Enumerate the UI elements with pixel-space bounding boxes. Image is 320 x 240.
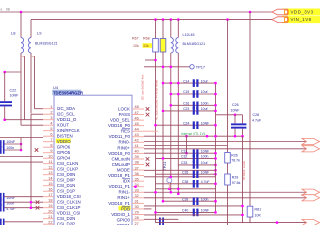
svg-text:36: 36 [135, 172, 139, 176]
svg-text:GPIO5: GPIO5 [57, 150, 71, 155]
svg-text:I2C_SCL: I2C_SCL [57, 112, 75, 117]
svg-text:CSI_D1N: CSI_D1N [57, 183, 76, 188]
svg-text:L8: L8 [11, 31, 16, 36]
svg-text:DC xxx 5xGbE 4ch: DC xxx 5xGbE 4ch [141, 74, 145, 100]
svg-text:CSI_CLKP: CSI_CLKP [57, 167, 78, 172]
svg-text:R26: R26 [231, 154, 237, 158]
svg-text:4: 4 [50, 121, 52, 125]
svg-text:44: 44 [135, 127, 139, 131]
svg-text:100n: 100n [6, 146, 14, 150]
svg-text:C33: C33 [181, 161, 187, 165]
svg-text:MODE: MODE [117, 167, 130, 172]
svg-text:10NF: 10NF [10, 94, 20, 98]
svg-text:VDD_SEL: VDD_SEL [110, 118, 131, 123]
svg-text:C39: C39 [182, 197, 188, 201]
svg-text:37: 37 [135, 166, 139, 170]
svg-text:16: 16 [48, 187, 52, 191]
svg-text:R67: R67 [132, 37, 139, 41]
svg-text:VDD11_D: VDD11_D [57, 117, 76, 122]
svg-text:2: 2 [50, 110, 52, 114]
svg-text:VDD11_F1: VDD11_F1 [109, 184, 131, 189]
svg-text:10NF: 10NF [6, 140, 16, 144]
svg-text:17: 17 [48, 193, 52, 197]
svg-text:VDD18_P0: VDD18_P0 [108, 123, 131, 128]
svg-text:48: 48 [135, 105, 139, 109]
svg-text:RIN0-: RIN0- [119, 140, 131, 145]
svg-text:U4: U4 [53, 85, 59, 90]
svg-text:100n: 100n [201, 197, 209, 201]
svg-text:4C xxxx 5xGbE 44 4chx 4kmk: 4C xxxx 5xGbE 44 4chx 4kmk [154, 79, 158, 120]
svg-text:XIN/RFCLK: XIN/RFCLK [57, 128, 80, 133]
svg-text:9: 9 [50, 149, 52, 153]
svg-text:C38: C38 [182, 180, 188, 184]
svg-text:33: 33 [135, 188, 139, 192]
svg-text:10NF: 10NF [201, 170, 209, 174]
svg-text:VIN_1V8: VIN_1V8 [291, 17, 312, 22]
svg-text:GPIO6: GPIO6 [57, 145, 71, 150]
svg-text:C23: C23 [183, 107, 189, 111]
svg-text:31: 31 [135, 200, 139, 204]
svg-text:VDDIO: VDDIO [57, 139, 71, 144]
svg-text:VDD18_P1: VDD18_P1 [108, 173, 131, 178]
svg-text:10uf: 10uf [201, 107, 208, 111]
svg-text:29: 29 [135, 211, 139, 215]
svg-text:45: 45 [135, 122, 139, 126]
svg-text:35: 35 [135, 177, 139, 181]
svg-text:CSI_D0P: CSI_D0P [57, 178, 75, 183]
svg-text:97.6k: 97.6k [232, 181, 241, 185]
svg-text:11: 11 [49, 160, 53, 164]
svg-text:CSI_D2N: CSI_D2N [57, 216, 76, 221]
svg-text:13: 13 [48, 171, 52, 175]
svg-text:PASS: PASS [119, 112, 130, 117]
svg-text:30: 30 [135, 205, 139, 209]
svg-text:BLM18SG121: BLM18SG121 [35, 42, 58, 46]
svg-text:15: 15 [48, 182, 52, 186]
svg-text:TDES954RGZR: TDES954RGZR [53, 90, 83, 95]
svg-text:TP21: TP21 [163, 162, 167, 171]
svg-text:RIN1-: RIN1- [119, 190, 131, 195]
svg-text:C24: C24 [183, 121, 189, 125]
svg-text:I2C_SDA: I2C_SDA [57, 106, 75, 111]
svg-text:12: 12 [48, 165, 52, 169]
svg-text:78.7k: 78.7k [231, 159, 240, 163]
svg-text:40: 40 [135, 150, 139, 154]
svg-text:33k: 33k [143, 44, 149, 48]
svg-text:CSI_D1P: CSI_D1P [57, 189, 75, 194]
svg-text:VDD18_F0: VDD18_F0 [108, 151, 130, 156]
svg-text:08: 08 [6, 8, 10, 12]
svg-text:10uf: 10uf [201, 90, 208, 94]
svg-text:CSI_D2P: CSI_D2P [57, 222, 75, 225]
svg-text:C28: C28 [253, 113, 260, 117]
svg-text:GPIO0: GPIO0 [117, 217, 131, 222]
svg-text:CMLoutN: CMLoutN [111, 156, 130, 161]
svg-text:C14: C14 [183, 79, 189, 83]
svg-text:C31: C31 [181, 149, 187, 153]
svg-text:R29: R29 [232, 176, 238, 180]
svg-text:CSI_D0N: CSI_D0N [57, 172, 76, 177]
svg-text:VDD18_F1: VDD18_F1 [108, 201, 130, 206]
svg-text:C32: C32 [181, 155, 187, 159]
svg-text:GPIO4: GPIO4 [57, 156, 71, 161]
svg-text:R68: R68 [143, 37, 150, 41]
svg-text:10uf: 10uf [201, 79, 208, 83]
svg-text:ST04AF xxAE: ST04AF xxAE [242, 161, 246, 180]
svg-text:10K: 10K [255, 214, 262, 218]
svg-text:28: 28 [135, 216, 139, 220]
svg-text:7: 7 [50, 138, 52, 142]
svg-text:XOUT: XOUT [57, 123, 70, 128]
svg-text:C15: C15 [183, 90, 189, 94]
svg-text:LOCK: LOCK [118, 106, 130, 111]
svg-text:100n: 100n [201, 102, 209, 106]
svg-text:100n: 100n [201, 155, 209, 159]
svg-text:27: 27 [135, 222, 139, 225]
svg-text:CSI_CLK1P: CSI_CLK1P [57, 205, 81, 210]
svg-text:14: 14 [48, 176, 52, 180]
svg-text:10k: 10k [133, 44, 139, 48]
svg-text:5: 5 [50, 127, 52, 131]
svg-text:C22: C22 [10, 89, 17, 93]
svg-text:PDB: PDB [121, 206, 130, 211]
svg-text:VDD_3V3: VDD_3V3 [291, 10, 314, 15]
svg-text:22: 22 [48, 220, 52, 224]
svg-text:47: 47 [135, 111, 139, 115]
svg-text:VDD18_CSI: VDD18_CSI [57, 194, 81, 199]
svg-text:CMLoutP: CMLoutP [112, 162, 130, 167]
svg-text:VDD11_F0: VDD11_F0 [109, 134, 131, 139]
svg-text:CSI_CLKN: CSI_CLKN [57, 161, 78, 166]
svg-text:19: 19 [48, 204, 52, 208]
svg-text:C35: C35 [182, 170, 188, 174]
svg-text:GPIO1: GPIO1 [117, 223, 131, 225]
svg-text:10NF: 10NF [201, 121, 209, 125]
svg-text:e: e [1, 8, 3, 12]
svg-text:3: 3 [50, 116, 52, 120]
svg-text:4.7uF: 4.7uF [252, 119, 262, 123]
svg-text:BISTEN: BISTEN [57, 134, 73, 139]
svg-text:VDDIO_1: VDDIO_1 [111, 212, 130, 217]
svg-text:R81: R81 [255, 208, 262, 212]
svg-text:6: 6 [50, 132, 52, 136]
svg-text:21: 21 [48, 215, 52, 219]
svg-text:4.7uF: 4.7uF [201, 180, 210, 184]
svg-text:C26: C26 [232, 103, 239, 107]
svg-text:32: 32 [135, 194, 139, 198]
svg-text:L9: L9 [37, 31, 42, 36]
svg-text:10uf: 10uf [201, 161, 208, 165]
svg-text:TP17: TP17 [196, 64, 205, 69]
svg-text:18: 18 [48, 198, 52, 202]
svg-text:39: 39 [135, 155, 139, 159]
svg-text:RIN1+: RIN1+ [117, 195, 130, 200]
svg-text:8: 8 [50, 143, 52, 147]
svg-text:BLM18SG121: BLM18SG121 [183, 42, 206, 46]
svg-text:10: 10 [48, 154, 52, 158]
svg-text:10NF: 10NF [201, 149, 209, 153]
svg-text:VDD11_CSI: VDD11_CSI [57, 211, 81, 216]
svg-text:1: 1 [50, 105, 52, 109]
svg-text:43: 43 [135, 133, 139, 137]
svg-text:46: 46 [135, 116, 139, 120]
svg-text:10NF: 10NF [201, 209, 209, 213]
svg-text:41: 41 [135, 144, 139, 148]
svg-text:10NF: 10NF [231, 109, 241, 113]
svg-text:CSI_CLK1N: CSI_CLK1N [57, 200, 81, 205]
svg-text:42: 42 [135, 139, 139, 143]
svg-text:Internal VTL 1V1: Internal VTL 1V1 [181, 132, 206, 136]
svg-text:38: 38 [135, 161, 139, 165]
svg-text:C16: C16 [183, 102, 189, 106]
svg-text:C40: C40 [182, 209, 188, 213]
svg-text:RES: RES [121, 129, 130, 134]
svg-text:L12L45: L12L45 [183, 33, 195, 37]
svg-text:20: 20 [48, 209, 52, 213]
svg-text:RIN0+: RIN0+ [117, 145, 130, 150]
svg-text:IDX: IDX [123, 179, 130, 184]
